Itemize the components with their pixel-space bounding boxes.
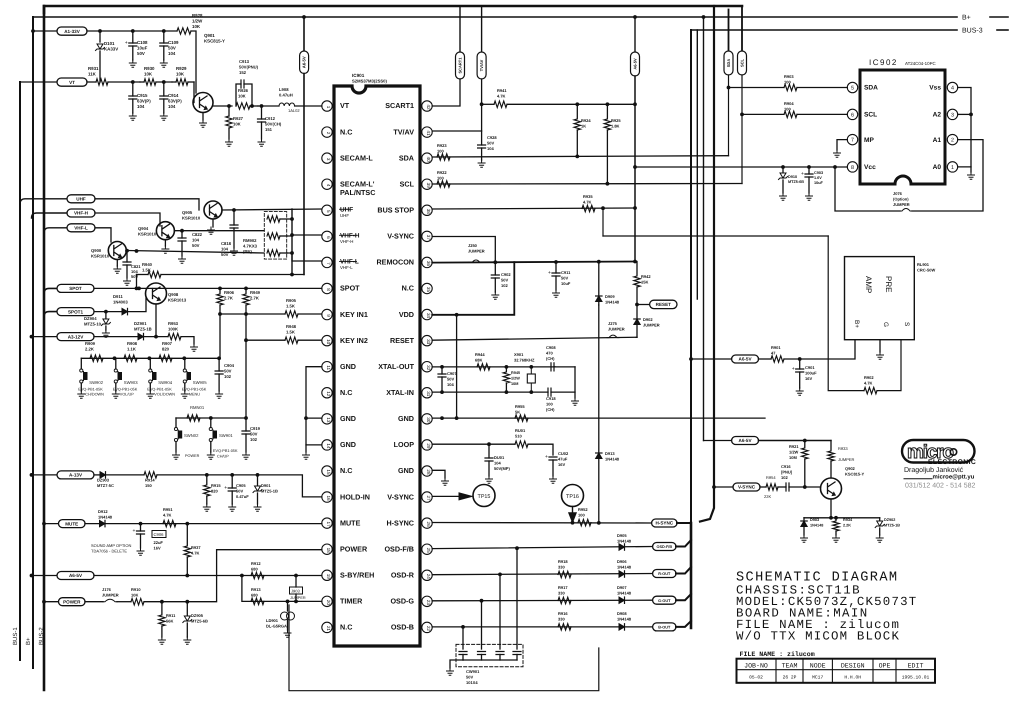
svg-text:C908: C908 — [546, 345, 556, 350]
svg-text:R937: R937 — [191, 545, 201, 550]
terminal VT — [20, 81, 57, 83]
svg-text:16V: 16V — [805, 376, 812, 381]
svg-text:SDA: SDA — [399, 153, 414, 162]
svg-text:A1: A1 — [933, 137, 942, 144]
svg-text:A-13V: A-13V — [69, 473, 83, 478]
ground C109 — [160, 60, 167, 67]
svg-text:1/2W: 1/2W — [789, 450, 799, 455]
svg-text:JUMPER: JUMPER — [893, 202, 910, 207]
svg-text:C903: C903 — [814, 171, 823, 175]
svg-text:R907: R907 — [162, 341, 173, 346]
svg-text:10uF: 10uF — [137, 46, 148, 51]
ground DZ904 — [102, 330, 109, 337]
pin 8 SPOT — [322, 283, 332, 293]
IC902 pin 7 MP — [847, 134, 857, 144]
pin 10 KEY IN2 — [322, 335, 332, 345]
wire pin 32 XTAL-OUT rail — [432, 366, 555, 368]
wire R940 down to SPOT line — [136, 275, 138, 289]
capacitor C908 — [551, 363, 554, 371]
pin 9 KEY IN1 — [322, 309, 332, 319]
svg-text:+: + — [224, 485, 227, 491]
wire L908 to pin 1 — [295, 105, 322, 107]
svg-text:R941: R941 — [497, 88, 507, 93]
svg-text:SCART1: SCART1 — [385, 101, 414, 110]
svg-text:R955: R955 — [515, 404, 525, 409]
svg-text:2.7K: 2.7K — [224, 296, 233, 301]
terminal UHF — [20, 199, 67, 204]
svg-text:A3-12V: A3-12V — [68, 334, 85, 339]
svg-text:SOUND AMP OPTION: SOUND AMP OPTION — [91, 543, 131, 548]
svg-text:Q900: Q900 — [91, 248, 102, 253]
IC902 pin 4 Vss — [947, 82, 957, 92]
svg-text:20: 20 — [326, 600, 331, 606]
svg-text:J076: J076 — [893, 191, 903, 196]
svg-text:SPOT: SPOT — [340, 284, 360, 293]
block RL901 PRE AMP body — [845, 257, 915, 340]
svg-text:GND: GND — [340, 362, 356, 371]
svg-text:V-SYNC: V-SYNC — [387, 232, 414, 241]
svg-text:34: 34 — [426, 313, 431, 319]
wire BUS STOP rail — [432, 208, 635, 209]
svg-text:100K: 100K — [168, 327, 178, 332]
svg-text:1K: 1K — [581, 124, 586, 129]
svg-text:IC901: IC901 — [352, 73, 365, 78]
transistor Q901 — [193, 93, 213, 113]
svg-text:IC902: IC902 — [869, 58, 898, 67]
zener DZ905 — [186, 602, 188, 615]
svg-text:CU02: CU02 — [558, 451, 569, 456]
wire RMN01 rail — [176, 417, 246, 419]
svg-text:SPOT1: SPOT1 — [68, 309, 84, 314]
svg-text:EVQ-PB1-05K: EVQ-PB1-05K — [78, 387, 103, 391]
svg-text:R923: R923 — [437, 143, 447, 148]
wire G pin ground — [879, 340, 881, 352]
pin 28 GND — [422, 466, 432, 476]
svg-text:(CH): (CH) — [546, 356, 555, 361]
svg-text:SCART1: SCART1 — [458, 57, 463, 74]
svg-text:102: 102 — [501, 283, 508, 288]
capacitor C905 — [231, 475, 233, 488]
zener D901 — [257, 475, 259, 485]
wire SCL rail to pin 39 — [432, 183, 742, 186]
ground C902 — [492, 292, 499, 299]
svg-text:104: 104 — [221, 247, 229, 252]
svg-text:CH/UP: CH/UP — [217, 455, 229, 459]
svg-text:22uF: 22uF — [154, 540, 164, 545]
svg-text:R935: R935 — [583, 194, 593, 199]
svg-text:A1-33V: A1-33V — [64, 29, 81, 34]
svg-text:R910: R910 — [131, 587, 141, 592]
svg-text:Q905: Q905 — [182, 210, 193, 215]
terminal RESET — [637, 304, 650, 306]
svg-text:G: G — [882, 322, 889, 327]
switch SW901 — [210, 418, 212, 428]
svg-text:2.2K: 2.2K — [85, 347, 94, 352]
ground C901 — [796, 388, 803, 395]
svg-text:R944: R944 — [475, 352, 485, 357]
svg-text:47: 47 — [771, 351, 776, 356]
svg-text:W/O TTX MICOM BLOCK: W/O TTX MICOM BLOCK — [736, 630, 900, 644]
wire RM902 common — [291, 209, 293, 275]
svg-text:VOL/UP: VOL/UP — [120, 393, 134, 397]
wire POWER to pin 18 — [144, 550, 322, 602]
svg-text:VHF-H: VHF-H — [340, 239, 353, 244]
svg-text:104: 104 — [494, 461, 501, 466]
wire A-13V rail to HOLD-IN — [157, 475, 322, 497]
svg-text:+: + — [792, 366, 795, 372]
svg-text:DZ905: DZ905 — [191, 613, 204, 618]
ground R927 — [226, 139, 233, 146]
wire A6-5V rail to S-BY — [94, 575, 322, 577]
svg-text:1.6V: 1.6V — [814, 176, 822, 180]
svg-text:MTZ5-10: MTZ5-10 — [84, 322, 102, 327]
svg-text:R905: R905 — [286, 298, 297, 303]
resistor R942 — [636, 262, 638, 276]
svg-text:50V: 50V — [168, 46, 176, 51]
resistor R949 — [245, 288, 247, 293]
wire SDA down — [728, 75, 730, 156]
svg-text:102: 102 — [250, 437, 258, 442]
terminal A6-5V preamp — [691, 358, 732, 360]
pin 24 OSD-R — [422, 570, 432, 580]
resistor R921 — [804, 441, 806, 448]
svg-text:MTZ5-6B: MTZ5-6B — [191, 619, 208, 624]
svg-text:2.7K: 2.7K — [250, 296, 259, 301]
pin 6 VHF-H — [322, 231, 332, 241]
terminal A6-5V vertical top — [303, 17, 305, 51]
svg-text:+: + — [125, 40, 128, 46]
svg-text:15K: 15K — [641, 280, 648, 285]
svg-text:+: + — [548, 270, 551, 276]
svg-text:1: 1 — [326, 106, 331, 109]
svg-text:D913: D913 — [605, 451, 615, 456]
svg-text:R918: R918 — [558, 559, 568, 564]
pin 27 V-SYNC — [422, 492, 432, 502]
pin 40 SDA — [422, 153, 432, 163]
resistor R935 — [582, 205, 595, 211]
svg-text:26: 26 — [426, 522, 431, 528]
ground pin 28 — [442, 478, 449, 485]
capacitor C912 — [261, 106, 263, 119]
resistor R902 — [864, 387, 877, 393]
svg-text:5: 5 — [851, 86, 854, 92]
wire SCART1 to pin 42 — [432, 79, 460, 106]
svg-text:24: 24 — [426, 574, 431, 580]
svg-text:C916: C916 — [781, 464, 791, 469]
ground C904 — [216, 391, 223, 398]
pin 38 BUS STOP — [422, 205, 432, 215]
ground D901 — [254, 504, 261, 511]
IC902 pin 5 SDA — [847, 82, 857, 92]
resistor R952 — [578, 519, 591, 525]
svg-text:RM902: RM902 — [243, 238, 257, 243]
wire Q900 collector to pin 7 — [126, 251, 264, 254]
wire top rail 2 B+ horizontal — [33, 17, 957, 19]
svg-text:A6-5V: A6-5V — [302, 56, 307, 68]
svg-text:1N4148: 1N4148 — [98, 515, 113, 520]
svg-text:R948: R948 — [286, 324, 297, 329]
transistor Q905 — [204, 201, 222, 219]
svg-text:SCL: SCL — [864, 112, 877, 119]
diode D907 — [619, 597, 625, 603]
capacitor array CW901 dashed box — [456, 644, 523, 666]
ground SW905 — [181, 391, 188, 398]
svg-text:VHF-H: VHF-H — [74, 211, 89, 216]
resistor R905 — [285, 311, 298, 317]
svg-text:22K: 22K — [764, 494, 771, 499]
svg-text:R922: R922 — [437, 170, 447, 175]
svg-text:R949: R949 — [250, 290, 261, 295]
wire VDD column down — [456, 315, 458, 418]
resistor R906 — [219, 288, 221, 293]
svg-text:50V: 50V — [137, 51, 145, 56]
wire pin 31 XTAL-IN rail — [432, 391, 548, 393]
svg-text:BUS STOP: BUS STOP — [377, 205, 414, 214]
svg-text:RL901: RL901 — [917, 262, 930, 267]
wire OSD-F/B to bus — [676, 540, 691, 547]
svg-text:4.7KX3: 4.7KX3 — [243, 244, 258, 249]
resistor R910 — [117, 601, 131, 603]
svg-text:031/512 402 - 514 582: 031/512 402 - 514 582 — [905, 482, 976, 490]
wire Vcc rail — [635, 166, 847, 168]
capacitor C911 — [555, 262, 557, 273]
inductor L908 — [258, 105, 279, 107]
svg-text:1N4148: 1N4148 — [617, 591, 632, 596]
svg-text:18: 18 — [326, 548, 331, 554]
svg-text:21: 21 — [326, 626, 331, 632]
terminal B-OUT — [653, 623, 676, 631]
pin 14 GND — [322, 440, 332, 450]
svg-text:68K: 68K — [475, 358, 482, 363]
pin 4 SECAM-L' — [322, 179, 332, 189]
wire G-OUT to bus — [676, 594, 691, 600]
pin 12 N.C — [322, 388, 332, 398]
transistor Q908 — [146, 283, 167, 304]
svg-text:BUS-1: BUS-1 — [12, 627, 19, 645]
svg-text:40: 40 — [426, 157, 431, 163]
resistor RM902 b — [267, 233, 280, 239]
svg-text:R903: R903 — [784, 74, 794, 79]
svg-text:+: + — [801, 171, 804, 177]
svg-text:C904: C904 — [224, 363, 235, 368]
svg-text:NODE: NODE — [810, 662, 826, 669]
switch SW902 — [80, 358, 82, 369]
svg-text:DL-G5RGA: DL-G5RGA — [266, 624, 287, 629]
svg-text:A6-5V: A6-5V — [739, 357, 753, 362]
svg-text:PRE: PRE — [884, 276, 893, 292]
svg-text:RESET: RESET — [656, 302, 672, 307]
svg-text:LD901: LD901 — [266, 618, 279, 623]
wire Q904 collector to pin 6 — [174, 230, 264, 232]
capacitor C918 — [548, 388, 551, 396]
svg-text:V-SYNC: V-SYNC — [738, 485, 756, 490]
svg-text:56K: 56K — [166, 619, 173, 624]
wire Q905 collector to pin 5 — [222, 209, 322, 210]
resistor R913 — [251, 598, 264, 604]
svg-text:RMN01: RMN01 — [190, 405, 205, 410]
svg-text:104: 104 — [168, 104, 176, 109]
svg-text:MP: MP — [864, 137, 874, 144]
svg-text:MTZ5-6B: MTZ5-6B — [788, 180, 804, 184]
svg-text:50V(CH): 50V(CH) — [265, 122, 282, 127]
capacitor C914 — [163, 82, 165, 96]
ground CU02 — [550, 476, 557, 483]
resistor R930 — [144, 79, 156, 85]
svg-text:SWN02: SWN02 — [184, 433, 199, 438]
resistor network RM902 dashed box — [264, 212, 286, 260]
pin 16 HOLD-IN — [322, 492, 332, 502]
wire key ladder — [81, 357, 219, 359]
svg-text:VT: VT — [69, 80, 75, 85]
wire SDA rail to pin 40 — [432, 156, 728, 157]
svg-text:S: S — [903, 322, 910, 326]
svg-text:C901: C901 — [805, 365, 815, 370]
svg-text:R912: R912 — [251, 561, 261, 566]
svg-text:50V: 50V — [250, 432, 258, 437]
svg-text:DZ904: DZ904 — [84, 316, 97, 321]
svg-text:R916: R916 — [558, 611, 568, 616]
svg-text:A0: A0 — [933, 164, 942, 171]
svg-text:680: 680 — [251, 593, 258, 598]
svg-text:GND: GND — [340, 440, 356, 449]
svg-text:104: 104 — [137, 104, 145, 109]
svg-text:Q904: Q904 — [138, 226, 149, 231]
svg-text:1N4148: 1N4148 — [617, 539, 632, 544]
svg-text:JUMPER: JUMPER — [468, 249, 485, 254]
svg-text:+: + — [545, 454, 548, 460]
svg-text:50V: 50V — [466, 675, 473, 680]
resistor R940 — [137, 274, 149, 276]
svg-text:C108: C108 — [137, 40, 148, 45]
terminal SDA vertical — [728, 10, 730, 52]
ground Q900 emitter — [116, 260, 118, 267]
svg-text:100: 100 — [784, 107, 791, 112]
svg-text:A6-5V: A6-5V — [739, 438, 753, 443]
svg-text:10K: 10K — [238, 94, 246, 99]
bus vertical to A6-5V right — [703, 17, 705, 441]
svg-text:SECAM-L: SECAM-L — [340, 153, 373, 162]
jumper J903 — [295, 576, 297, 588]
svg-text:MTZ5-1B: MTZ5-1B — [134, 327, 152, 332]
svg-text:(CH): (CH) — [546, 407, 555, 412]
transistor Q900 — [108, 242, 126, 260]
ground DU01 — [486, 476, 493, 483]
resistor R911 — [161, 602, 163, 614]
svg-text:Q902: Q902 — [845, 466, 856, 471]
wire MP pin ground — [837, 140, 847, 150]
svg-text:4.7K: 4.7K — [191, 551, 200, 556]
svg-text:10K: 10K — [233, 122, 241, 127]
svg-text:POWER: POWER — [185, 454, 200, 458]
svg-text:Dragoljub Janković: Dragoljub Janković — [904, 466, 964, 474]
logo micro electronic — [902, 440, 975, 463]
svg-text:152: 152 — [239, 70, 247, 75]
capacitor C822 — [181, 231, 183, 238]
svg-text:42: 42 — [426, 104, 431, 110]
svg-text:10M: 10M — [511, 382, 518, 386]
resistor R915 — [206, 475, 208, 484]
wire pin 28 GND stub — [432, 470, 445, 478]
svg-text:R925: R925 — [611, 118, 621, 123]
zener DZ904 — [105, 312, 107, 318]
LED LD901 — [287, 601, 289, 611]
svg-text:104: 104 — [168, 51, 176, 56]
svg-text:R914: R914 — [145, 478, 155, 483]
pin 41 TV/AV — [422, 127, 432, 137]
svg-text:R909: R909 — [85, 341, 96, 346]
ground C903 — [806, 193, 813, 200]
capacitor C913 — [236, 84, 241, 106]
capacitor C109 — [163, 31, 165, 43]
svg-text:R913: R913 — [251, 587, 261, 592]
wire A6-5V feed down — [303, 74, 305, 275]
svg-text:1995.10.01: 1995.10.01 — [902, 674, 930, 680]
bus BUS-2 vertical — [43, 6, 46, 690]
wire pin 37 V-SYNC — [432, 237, 495, 276]
wire pin 22 OSD-B rail — [432, 626, 652, 628]
switch SW903 — [115, 358, 117, 369]
svg-text:KSR1010: KSR1010 — [91, 254, 110, 259]
svg-text:UHF: UHF — [76, 197, 86, 202]
svg-text:TEAM: TEAM — [782, 662, 798, 669]
svg-text:104: 104 — [192, 238, 200, 243]
svg-text:50V(PNU): 50V(PNU) — [239, 65, 259, 70]
ground CW901 — [447, 668, 454, 675]
resistor R908 — [124, 355, 137, 361]
svg-text:KSR1013: KSR1013 — [168, 298, 187, 303]
svg-text:1.5K: 1.5K — [286, 304, 295, 309]
svg-text:DESIGN: DESIGN — [841, 662, 865, 669]
svg-text:C915: C915 — [137, 93, 148, 98]
transistor Q904 — [156, 222, 174, 240]
resistor R918 — [558, 571, 571, 577]
svg-text:47uF: 47uF — [558, 457, 568, 462]
capacitor C915 — [132, 82, 134, 96]
svg-text:MTZ5-1B: MTZ5-1B — [884, 524, 900, 528]
bus vertical to V-SYNC right — [700, 6, 714, 522]
svg-text:1N4148: 1N4148 — [617, 617, 632, 622]
svg-text:N.C: N.C — [340, 127, 352, 136]
pin 3 SECAM-L — [322, 153, 332, 163]
svg-text:R901: R901 — [771, 345, 781, 350]
svg-text:SDA: SDA — [726, 59, 731, 68]
svg-text:R942: R942 — [641, 274, 651, 279]
svg-text:PAL/NTSC: PAL/NTSC — [340, 188, 375, 197]
svg-text:820: 820 — [211, 489, 218, 494]
svg-text:JUMPER: JUMPER — [102, 593, 119, 598]
svg-text:GND: GND — [340, 414, 356, 423]
wire R949 column down — [245, 340, 247, 418]
resistor R923 — [437, 154, 450, 160]
svg-text:50V: 50V — [561, 276, 568, 281]
wire MUTE rail — [105, 523, 322, 525]
terminal VHF-L — [44, 228, 67, 233]
wire R906 column down — [219, 314, 221, 358]
svg-text:Vss: Vss — [929, 85, 941, 92]
svg-text:SW902: SW902 — [89, 380, 103, 385]
svg-text:B+: B+ — [25, 637, 32, 645]
svg-text:JOB-NO: JOB-NO — [744, 662, 768, 669]
capacitor C901 — [799, 359, 801, 369]
svg-text:2: 2 — [326, 132, 331, 135]
svg-text:TP16: TP16 — [566, 494, 579, 500]
resistor R941 row — [482, 103, 494, 105]
svg-text:1.5K: 1.5K — [286, 330, 295, 335]
wire VT to Q901 base — [193, 82, 195, 103]
svg-text:D909: D909 — [605, 294, 615, 299]
wire CW901 common — [463, 659, 517, 661]
resistor R917 — [558, 597, 571, 603]
